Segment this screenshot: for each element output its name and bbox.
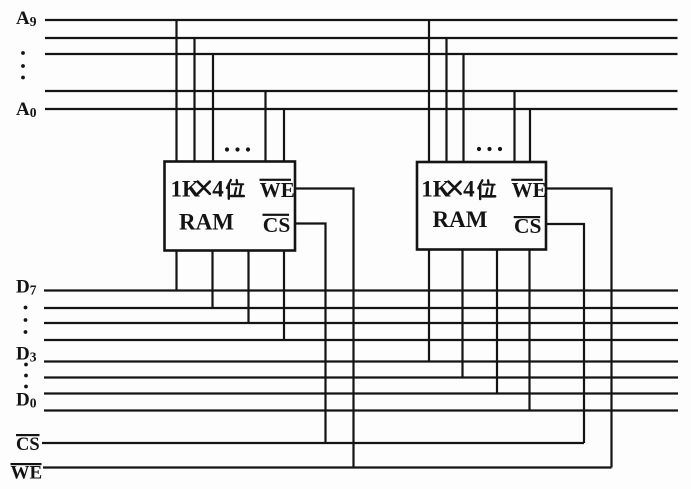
wire RAM1 WE to bus <box>295 189 354 468</box>
svg-text:CS: CS <box>16 435 40 455</box>
RAM U2 label 1K <box>421 177 451 202</box>
wire A7 to RAM2 <box>462 54 464 162</box>
svg-text:4: 4 <box>212 177 224 202</box>
svg-text:CS: CS <box>263 213 291 237</box>
wire RAM2 WE to bus <box>546 189 612 468</box>
RAM U2 label RAM <box>433 207 488 232</box>
data ellipsis dots upper <box>24 306 28 334</box>
svg-text:A0: A0 <box>16 99 37 120</box>
RAM U1 hanzi wei <box>227 180 244 199</box>
wire D0 bus <box>44 409 678 411</box>
wire D5 bus <box>44 322 678 324</box>
svg-text:RAM: RAM <box>179 210 234 235</box>
RAM U1 pin WE <box>260 178 295 202</box>
wire A7 to RAM1 <box>212 54 214 162</box>
wire RAM2 D0 pin <box>528 250 530 411</box>
wire A1 bus <box>45 90 678 92</box>
wire RAM2 D3 pin <box>428 250 430 362</box>
RAM U2 hanzi wei <box>478 180 495 199</box>
RAM2 address ellipsis <box>477 147 502 151</box>
wire D2 bus <box>44 376 678 378</box>
wire RAM1 D5 pin <box>247 251 249 324</box>
RAM U2 pin CS <box>514 214 542 238</box>
svg-text:WE: WE <box>512 178 547 202</box>
wire D6 bus <box>44 307 678 309</box>
wire D3 bus <box>44 360 678 362</box>
data ellipsis dots lower <box>24 363 28 389</box>
svg-text:D3: D3 <box>16 344 37 365</box>
wire A9 to RAM2 <box>428 20 430 162</box>
wire A1 to RAM2 <box>513 91 515 162</box>
wire RAM1 CS to bus <box>295 224 326 444</box>
wire RAM2 CS to bus <box>546 224 584 443</box>
wire RAM1 D4 pin <box>283 251 285 341</box>
wire D4 bus <box>44 339 678 341</box>
node CS <box>16 434 40 455</box>
wire CS bus <box>42 442 584 444</box>
RAM U1 pin CS <box>263 213 291 237</box>
RAM U1 label 4 <box>212 177 224 202</box>
svg-text:D7: D7 <box>16 277 37 298</box>
wire A9 bus <box>45 19 678 21</box>
wire A8 bus <box>45 37 678 39</box>
svg-text:1K: 1K <box>421 177 451 202</box>
node A9 <box>16 8 37 29</box>
node WE <box>11 463 43 484</box>
svg-text:RAM: RAM <box>433 207 488 232</box>
wire A9 to RAM1 <box>175 20 177 162</box>
wire D1 bus <box>44 392 678 394</box>
RAM U2 label 4 <box>463 177 475 202</box>
svg-text:WE: WE <box>260 178 295 202</box>
wire RAM1 D6 pin <box>211 251 213 309</box>
node D3 <box>16 344 37 365</box>
RAM U2 pin WE <box>511 178 546 202</box>
node D0 <box>16 390 37 411</box>
RAM U2 multiply sign <box>448 182 460 194</box>
wire A1 to RAM1 <box>264 91 266 162</box>
RAM chip U2 box <box>417 162 546 250</box>
wire A7 bus <box>45 53 678 55</box>
wire A0 bus <box>45 108 678 110</box>
wire RAM1 D7 pin <box>175 251 177 291</box>
address ellipsis dots <box>21 51 25 79</box>
wire RAM2 D2 pin <box>461 250 463 378</box>
node D7 <box>16 277 37 298</box>
RAM U1 label RAM <box>179 210 234 235</box>
wire A8 to RAM2 <box>445 38 447 162</box>
wire A0 to RAM2 <box>529 109 531 162</box>
wire WE bus <box>43 466 612 468</box>
svg-text:4: 4 <box>463 177 475 202</box>
svg-text:D0: D0 <box>16 390 37 411</box>
svg-text:WE: WE <box>11 463 43 484</box>
RAM U1 label 1K <box>171 177 201 202</box>
RAM1 address ellipsis <box>225 147 250 151</box>
wire RAM2 D1 pin <box>496 250 498 394</box>
RAM U1 multiply sign <box>198 182 210 194</box>
wire A8 to RAM1 <box>193 38 195 162</box>
wire A0 to RAM1 <box>283 109 285 162</box>
RAM chip U1 box <box>165 162 296 251</box>
svg-text:A9: A9 <box>16 8 37 29</box>
svg-text:1K: 1K <box>171 177 201 202</box>
node A0 <box>16 99 37 120</box>
wire D7 bus <box>44 289 678 291</box>
